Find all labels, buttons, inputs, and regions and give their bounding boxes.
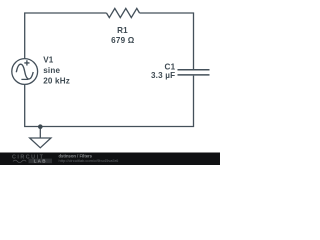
watermark bar: [0, 153, 220, 166]
ground: [30, 127, 51, 148]
wire top-right (top run from resistor and right riser to capacitor): [140, 13, 194, 69]
voltage source V1: [12, 59, 38, 85]
resistor R1: [107, 8, 140, 17]
svg-text:679 Ω: 679 Ω: [111, 36, 135, 45]
svg-text:sine: sine: [43, 66, 60, 75]
capacitor C1: [178, 70, 210, 75]
svg-text:20 kHz: 20 kHz: [43, 76, 70, 85]
svg-text:http://circuitlab.com/c/9bu45v: http://circuitlab.com/c/9bu45va5r6: [59, 158, 120, 163]
svg-text:3.3 µF: 3.3 µF: [151, 71, 175, 80]
wire bottom (capacitor down, bottom run, up to source bottom): [25, 76, 194, 127]
svg-text:LAB: LAB: [34, 159, 47, 164]
svg-text:V1: V1: [43, 56, 54, 65]
watermark CircuitLab logo: [12, 154, 52, 163]
node junction dot: [38, 124, 43, 129]
svg-text:R1: R1: [117, 26, 128, 35]
wire top-left (left riser and top run to resistor): [25, 13, 107, 59]
